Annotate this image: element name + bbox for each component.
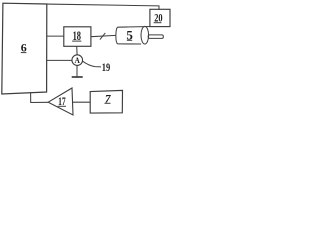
wire 6 to ammeter [47,59,72,61]
label 7 [105,93,112,105]
ground bar [72,76,83,78]
wire 18 to motor 5 [91,35,116,36]
svg-text:A: A [75,55,81,65]
label 20 [154,11,163,25]
block 20 [150,9,170,26]
label 18 [72,28,81,43]
amplifier triangle 17 [48,88,73,115]
block 7 [90,90,122,113]
wire 18 down to ammeter [76,46,78,55]
wire ammeter down [76,65,78,77]
wire 6 to 18 [47,35,64,37]
svg-text:18: 18 [73,28,82,43]
motor shaft [148,35,163,39]
label 17 [58,96,66,108]
block 6 (controller) [2,3,47,94]
block 18 [64,27,91,47]
ammeter circle A [72,55,83,66]
leader line to 19 [83,61,101,67]
wire 6 to amp 17 [31,92,49,102]
svg-text:19: 19 [102,62,111,74]
wire 6 to 20 (top) [47,4,159,10]
wire 17 to 7 [72,101,90,103]
slash mark on wire [100,33,105,40]
motor 5 end cap ellipse [141,26,149,44]
label 5 [126,27,133,42]
motor 5 body [116,26,163,44]
label 6 [21,40,27,54]
